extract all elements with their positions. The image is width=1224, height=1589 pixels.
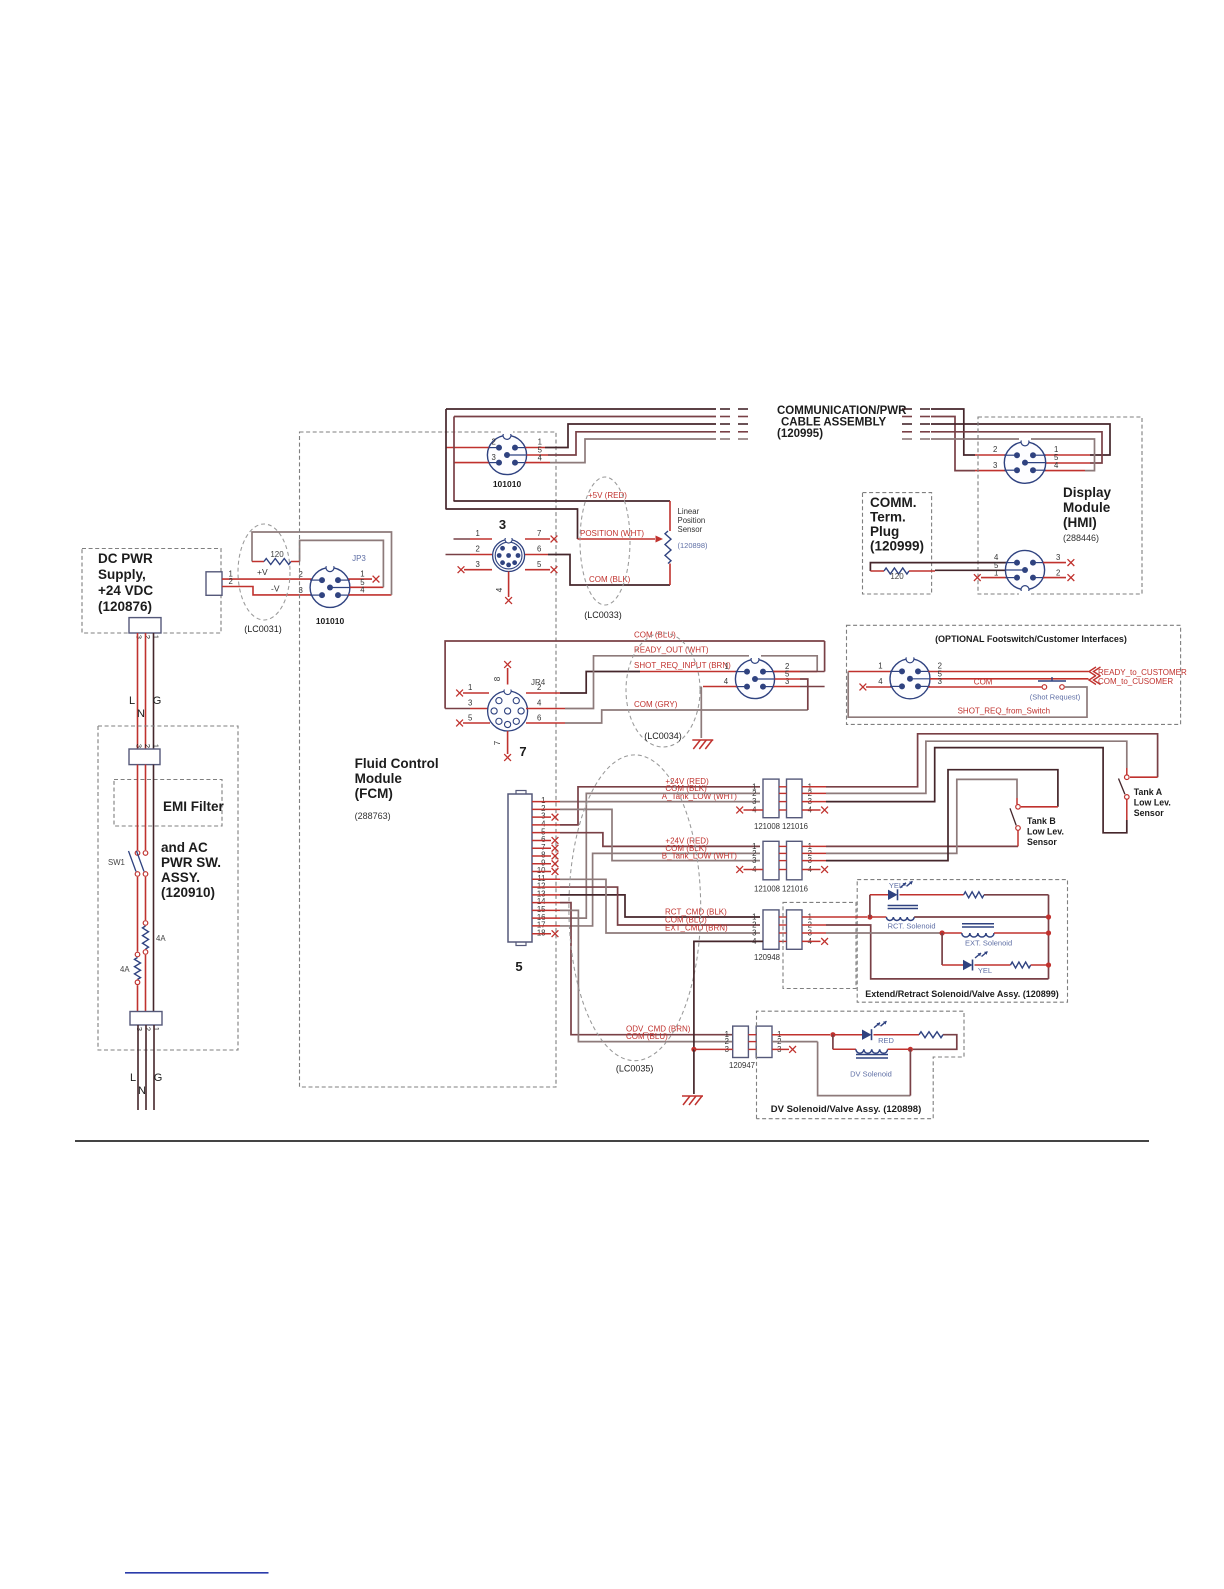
FCM connector pin number labels 1-18 <box>537 796 546 937</box>
connector JP3 101010 5-pin <box>310 554 366 626</box>
wire L from fuse to output block <box>137 985 139 1011</box>
svg-text:DV Solenoid/Valve Assy. (12089: DV Solenoid/Valve Assy. (120898) <box>771 1104 922 1115</box>
JR4 pin3 wire to COM BLU line <box>445 631 824 709</box>
wire tank B +24V to sensor switch bottom <box>802 831 1018 847</box>
svg-text:3: 3 <box>752 856 756 865</box>
connector3 pin7 stub with X <box>525 529 557 542</box>
wire L from EMI filter to DC supply <box>129 633 138 749</box>
fuse 4A on L wire <box>120 952 141 984</box>
wire cable row1 to HMI connector pin2 <box>931 409 1006 455</box>
wire tank A A_Tank_LOW return from sensor bottom <box>802 748 1127 833</box>
DV left pin labels <box>725 1030 729 1054</box>
wire 101010 pin1 to cable row3 <box>525 424 716 448</box>
LED YEL extend indicator branch <box>942 933 1046 975</box>
svg-text:SW1: SW1 <box>108 858 125 867</box>
svg-text:(HMI): (HMI) <box>1063 515 1097 530</box>
wire 101010 pin4 to cable row5 <box>525 439 716 463</box>
EMI filter AC input terminal block <box>130 1012 162 1032</box>
wire FCM pin13 RCT_CMD BLK <box>532 895 760 917</box>
ground net vertical at LC0034 <box>700 687 702 739</box>
footswitch connector pin1 wire SHOT_REQ from switch <box>848 662 1087 718</box>
svg-text:+V: +V <box>257 567 268 577</box>
svg-text:Plug: Plug <box>870 524 899 539</box>
svg-text:+5V (RED): +5V (RED) <box>588 491 627 500</box>
svg-text:Linear: Linear <box>678 507 700 516</box>
wire FCM pin17 COM BLK tank B <box>532 844 760 926</box>
svg-text:3: 3 <box>1056 553 1060 562</box>
connector HMI top 5-pin <box>1004 435 1045 483</box>
svg-text:L: L <box>129 695 135 707</box>
tank A 121016 pin4 stub with X <box>802 807 828 814</box>
AC line input wire N <box>138 1025 146 1110</box>
wire FCM pin1 A_Tank_LOW WHT <box>532 792 760 802</box>
connector3 pin6 wire COM BLK to sensor <box>525 545 670 586</box>
svg-text:N: N <box>138 1085 146 1097</box>
linear position sensor potentiometer (120898) <box>665 507 708 564</box>
LC0034 connector pin2 wire to COM BLU <box>773 641 824 672</box>
JR4 pin2 wire SHOT_REQ_INPUT BRN <box>526 661 737 693</box>
svg-text:POSITION (WHT): POSITION (WHT) <box>580 529 644 538</box>
JP3 pin1 stub with X <box>349 570 380 583</box>
wire G through EMI filter straight down <box>153 765 155 1012</box>
wire FCM pin4 +24V RED tank A <box>532 777 760 825</box>
svg-text:(LC0031): (LC0031) <box>244 624 282 634</box>
footswitch pin3 wire COM to shot request switch <box>929 677 1042 687</box>
tank A low level sensor switch <box>1119 775 1171 818</box>
svg-text:COM (BLU): COM (BLU) <box>634 631 676 640</box>
svg-text:COM (BLK): COM (BLK) <box>589 575 631 584</box>
wire N from SW1 to fuse <box>145 877 147 920</box>
POSITION WHT wiper line with arrow <box>578 529 664 543</box>
svg-text:5: 5 <box>785 670 790 679</box>
+5V wire corner into sensor top <box>669 501 671 531</box>
svg-text:YEL: YEL <box>889 881 903 890</box>
connector 3 label <box>499 517 506 532</box>
wire N through EMI filter <box>145 765 147 850</box>
svg-text:121016: 121016 <box>782 822 808 831</box>
comm terminator wire to HMI pin5 <box>935 561 1005 570</box>
svg-text:3: 3 <box>499 517 506 532</box>
svg-text:2: 2 <box>476 545 480 554</box>
svg-text:Module: Module <box>1063 500 1111 515</box>
svg-text:4: 4 <box>495 587 504 592</box>
svg-text:4: 4 <box>360 586 365 595</box>
tank A right pin labels <box>808 782 813 814</box>
svg-text:(120995): (120995) <box>777 428 823 440</box>
connector 121008 tank B <box>754 841 780 893</box>
wire vertical A to connector3 pin2 <box>446 545 493 555</box>
svg-text:L: L <box>130 1072 136 1084</box>
LED YEL retract indicator <box>870 881 913 900</box>
svg-text:5: 5 <box>468 714 473 723</box>
tank B left pin labels <box>752 842 757 874</box>
svg-text:G: G <box>153 695 162 707</box>
JR4 pin5 stub with X <box>456 714 490 727</box>
COMM Term Plug box (120999) <box>863 493 932 594</box>
HMI lower connector pin1 stub with X <box>974 569 1007 582</box>
wire L through EMI filter <box>137 765 139 850</box>
cable ellipse LC0035 <box>569 755 701 1074</box>
svg-text:COM_to_CUSOMER: COM_to_CUSOMER <box>1098 677 1173 686</box>
connector 121016 tank B <box>782 841 808 893</box>
svg-text:4A: 4A <box>156 934 166 943</box>
connector 120948 right <box>787 910 803 949</box>
svg-text:COM: COM <box>974 678 993 687</box>
RCT solenoid coil <box>872 906 1046 931</box>
svg-text:SHOT_REQ_from_Switch: SHOT_REQ_from_Switch <box>958 707 1050 716</box>
cable break dashes right side <box>902 409 930 439</box>
tank B 121008 pin4 stub with X <box>736 866 763 873</box>
svg-text:RCT. Solenoid: RCT. Solenoid <box>888 922 936 931</box>
junction EXT node left <box>940 930 945 935</box>
svg-text:Low Lev.: Low Lev. <box>1134 797 1171 807</box>
connector 120948 left <box>754 910 780 962</box>
tank A connector pair pin links <box>779 787 787 810</box>
EMI filter block <box>114 780 225 827</box>
svg-text:Sensor: Sensor <box>678 525 703 534</box>
footer link underline <box>125 1572 269 1574</box>
footswitch connector 5-pin <box>890 652 930 699</box>
svg-text:DV Solenoid: DV Solenoid <box>850 1070 892 1079</box>
wire 120948 pin2 COM to bottom rail <box>802 925 1049 979</box>
svg-text:101010: 101010 <box>493 479 522 489</box>
JP3 pin5 wire to 120ohm terminator <box>350 578 383 587</box>
position line from vertical A <box>446 509 578 539</box>
svg-text:3: 3 <box>492 453 496 462</box>
svg-text:EMI Filter: EMI Filter <box>163 799 225 814</box>
svg-text:CABLE ASSEMBLY: CABLE ASSEMBLY <box>781 417 887 429</box>
terminator inner loop wire pin5 to resistor <box>300 540 384 587</box>
svg-text:7: 7 <box>537 529 541 538</box>
wire 120947 pin1 ODV to LED node <box>772 1034 830 1036</box>
switch SW1 double pole <box>108 851 148 877</box>
svg-text:JP3: JP3 <box>352 554 366 563</box>
svg-text:+24 VDC: +24 VDC <box>98 583 153 598</box>
wire FCM pin2 B_Tank_LOW WHT <box>532 809 760 860</box>
wire 120948 pin4 to DV common and ground <box>694 941 763 1049</box>
svg-text:and AC: and AC <box>161 840 208 855</box>
svg-text:(LC0035): (LC0035) <box>616 1064 654 1074</box>
wire L from SW1 to fuse <box>137 877 139 952</box>
wire cable row4 to HMI connector pin5 <box>931 432 1102 463</box>
svg-text:N: N <box>137 708 145 720</box>
EXT solenoid coil <box>942 924 1046 948</box>
svg-text:SHOT_REQ_INPUT (BRN): SHOT_REQ_INPUT (BRN) <box>634 661 731 670</box>
+5V RED line from vertical B to sensor <box>454 491 671 501</box>
svg-text:(120876): (120876) <box>98 599 152 614</box>
svg-text:G: G <box>154 1072 163 1084</box>
svg-text:4: 4 <box>537 699 542 708</box>
EMI filter input terminal block <box>129 744 161 765</box>
footswitch connector pin4 stub with X <box>860 677 892 690</box>
FCM 18-pin connector 5 body <box>508 791 532 975</box>
cable break dashes left side <box>720 409 748 439</box>
LC0034 connector pin3 wire <box>773 677 824 687</box>
connector 3 8-pin <box>493 533 525 572</box>
svg-text:120947: 120947 <box>729 1061 755 1070</box>
120947 pin3 stub with X right side <box>772 1046 796 1053</box>
svg-text:(LC0033): (LC0033) <box>584 610 622 620</box>
svg-text:121008: 121008 <box>754 885 780 894</box>
wire N from EMI filter to DC supply <box>137 633 145 749</box>
fuse 4A on N wire <box>143 921 167 955</box>
connector 121008 tank A <box>754 779 780 831</box>
svg-text:6: 6 <box>537 545 541 554</box>
svg-text:4A: 4A <box>120 965 130 974</box>
footer horizontal rule <box>75 1140 1149 1142</box>
connector3 pin3 stub with X <box>458 560 492 573</box>
svg-text:1: 1 <box>878 662 882 671</box>
junction DV common <box>691 1047 696 1052</box>
LED RED divert indicator <box>833 1021 895 1045</box>
svg-text:EXT. Solenoid: EXT. Solenoid <box>965 939 1012 948</box>
svg-text:4: 4 <box>1054 461 1059 470</box>
svg-text:(120999): (120999) <box>870 539 924 554</box>
wire 101010 pin5 to cable row4 <box>527 432 716 455</box>
junction DV LED node <box>830 1032 835 1037</box>
LC0034 cable connector 5-pin <box>735 652 774 698</box>
JR4 connector 8-pin open pins <box>488 685 528 732</box>
svg-text:Fluid Control: Fluid Control <box>355 756 439 771</box>
connector 120947 right <box>756 1026 772 1057</box>
JR4 pin7 bottom stub with X <box>493 731 511 761</box>
junction RCT node right <box>1046 914 1051 919</box>
terminator outer loop wire pin4 to resistor <box>252 532 392 595</box>
cable ellipse LC0034 <box>626 633 700 747</box>
svg-text:Supply,: Supply, <box>98 567 146 582</box>
wire tank B COM to sensor switch top <box>802 779 1017 853</box>
svg-text:COM (GRY): COM (GRY) <box>634 700 678 709</box>
svg-text:120: 120 <box>270 550 284 559</box>
extend retract pin4 stub with X right side <box>802 938 828 945</box>
footswitch pin2 wire READY_to_CUSTOMER <box>929 662 1187 678</box>
svg-text:Tank A: Tank A <box>1134 787 1163 797</box>
svg-text:3: 3 <box>135 635 144 639</box>
svg-text:2: 2 <box>143 744 152 748</box>
svg-text:5: 5 <box>537 560 542 569</box>
svg-text:YEL: YEL <box>978 966 992 975</box>
wire G ground from EMI filter to DC supply <box>153 633 162 749</box>
svg-text:-V: -V <box>271 584 280 594</box>
JR4 pin8 top stub with X <box>493 661 511 691</box>
svg-text:4: 4 <box>724 677 729 686</box>
svg-text:Extend/Retract Solenoid/Valve: Extend/Retract Solenoid/Valve Assy. (120… <box>865 989 1059 999</box>
connector 120947 left <box>729 1026 755 1070</box>
wire cable row5 to HMI connector pin4 <box>931 439 1095 471</box>
svg-text:120: 120 <box>890 572 904 581</box>
wire -V from DC supply pin2 to JP3 pin3 <box>222 577 312 595</box>
svg-text:7: 7 <box>519 744 526 759</box>
resistor retract LED branch <box>900 892 1049 898</box>
wire FCM pin16 COM BLK tank A <box>532 784 760 918</box>
svg-text:8: 8 <box>493 676 502 681</box>
JP3 pin4 wire to terminator outer loop <box>349 586 392 595</box>
svg-text:(FCM): (FCM) <box>355 786 393 801</box>
svg-text:101010: 101010 <box>316 616 345 626</box>
DV solenoid valve assembly box (120898) <box>757 1011 965 1118</box>
junction DV coil right <box>908 1047 913 1052</box>
svg-text:3: 3 <box>135 744 144 748</box>
tank A left pin labels <box>752 782 757 814</box>
svg-text:3: 3 <box>468 699 472 708</box>
svg-text:7: 7 <box>493 740 502 745</box>
svg-text:(120898): (120898) <box>678 541 709 550</box>
wire FCM pin11 EXT_CMD BRN <box>532 879 760 933</box>
junction EXT node right <box>1046 930 1051 935</box>
wire 101010 pin2 net to cable row1 and position line <box>446 409 717 509</box>
shot request pushbutton switch <box>1030 677 1081 702</box>
svg-text:Sensor: Sensor <box>1027 837 1057 847</box>
junction RCT node left <box>867 914 872 919</box>
tank B low level sensor switch <box>1010 805 1064 847</box>
extend retract right pin labels <box>808 913 813 946</box>
svg-text:Tank B: Tank B <box>1027 816 1056 826</box>
wire tank B B_Tank_LOW to sensor switch <box>802 770 1058 861</box>
tank B 121016 pin4 stub with X <box>802 866 828 873</box>
junction extend LED branch right <box>1046 962 1051 967</box>
svg-text:3: 3 <box>938 677 942 686</box>
svg-text:4: 4 <box>878 677 883 686</box>
svg-text:2: 2 <box>993 445 997 454</box>
svg-text:EXT_CMD (BRN): EXT_CMD (BRN) <box>665 924 728 933</box>
AC line input wire G <box>154 1025 163 1110</box>
DV connector pair pin links <box>748 1035 756 1050</box>
HMI lower pin2 stub with X <box>1043 569 1074 582</box>
wire FCM pin14 ODV_CMD BRN <box>532 903 733 1035</box>
svg-text:6: 6 <box>537 714 541 723</box>
DC supply output terminal block <box>206 572 222 596</box>
svg-text:Module: Module <box>355 771 403 786</box>
JR4 connector label <box>519 678 545 759</box>
COMMUNICATION/PWR CABLE ASSEMBLY label (120995) <box>777 405 907 440</box>
wire FCM pin5 +24V RED tank B <box>532 833 760 847</box>
JR4 pin6 wire COM GRY <box>526 700 808 723</box>
svg-text:B_Tank_LOW (WHT): B_Tank_LOW (WHT) <box>662 852 737 861</box>
Fluid Control Module FCM box (288763) <box>300 432 557 1087</box>
wire junction down to ground <box>693 1049 695 1094</box>
wire cable row3 to HMI connector pin1 <box>931 424 1110 455</box>
svg-text:READY_OUT (WHT): READY_OUT (WHT) <box>634 646 709 655</box>
extend retract left pin labels <box>752 913 757 946</box>
svg-text:1: 1 <box>476 529 480 538</box>
AC line input wire L <box>130 1025 138 1110</box>
wire FCM pin15 COM BLU to DV valve <box>532 910 733 1041</box>
resistor DV LED branch <box>874 1032 957 1050</box>
DV right pin labels <box>777 1030 781 1054</box>
svg-text:(120910): (120910) <box>161 885 215 900</box>
svg-text:Position: Position <box>678 516 706 525</box>
LC0034 connector pin5 wire to COM GRY <box>775 670 808 711</box>
svg-text:RED: RED <box>878 1036 894 1045</box>
tank A 121008 pin4 stub with X <box>736 807 763 814</box>
wire 120948 pin1 RCT to junction <box>802 916 867 918</box>
ground symbol at LC0034 <box>692 740 713 749</box>
svg-text:2: 2 <box>537 683 541 692</box>
DV solenoid coil <box>833 1035 908 1079</box>
svg-text:Display: Display <box>1063 485 1112 500</box>
connector3 pin4 bottom stub with X <box>495 572 512 604</box>
right rail of extend retract circuit <box>1048 895 1050 979</box>
cable ellipse LC0031 <box>238 524 290 634</box>
svg-text:2: 2 <box>1056 569 1060 578</box>
svg-text:(288446): (288446) <box>1063 533 1099 543</box>
OPTIONAL Footswitch Customer Interfaces box <box>847 625 1181 724</box>
svg-text:2: 2 <box>144 1027 153 1031</box>
tank B right pin labels <box>808 842 813 874</box>
wire 120947 pin2 COM return <box>772 1042 910 1096</box>
svg-text:READY_to_CUSTOMER: READY_to_CUSTOMER <box>1098 668 1187 677</box>
wire cable row2 to HMI connector pin3 <box>931 417 1006 471</box>
svg-text:5: 5 <box>515 959 522 974</box>
svg-text:121008: 121008 <box>754 822 780 831</box>
svg-text:1: 1 <box>994 569 998 578</box>
resistor 120 ohm CAN terminator at JP3 <box>252 550 300 565</box>
svg-text:(OPTIONAL Footswitch/Customer: (OPTIONAL Footswitch/Customer Interfaces… <box>935 634 1127 644</box>
svg-text:(Shot Request): (Shot Request) <box>1030 693 1081 702</box>
cable ellipse LC0033 <box>580 477 630 620</box>
wire FCM pin12 COM BLU <box>532 887 760 925</box>
svg-text:PWR SW.: PWR SW. <box>161 855 221 870</box>
DC supply AC input terminal block <box>129 618 161 639</box>
FCM unused pin stubs with X marks pins 3 6 7 8 9 10 18 <box>532 814 558 937</box>
svg-text:COMMUNICATION/PWR: COMMUNICATION/PWR <box>777 405 907 417</box>
svg-text:Low Lev.: Low Lev. <box>1027 826 1064 836</box>
svg-text:Sensor: Sensor <box>1134 808 1164 818</box>
JR4 pin1 stub with X <box>456 683 489 696</box>
ground symbol at DV common <box>682 1096 703 1105</box>
svg-text:2: 2 <box>229 577 233 586</box>
svg-text:DC PWR: DC PWR <box>98 551 153 566</box>
footswitch pin5 wire COM_to_CUSOMER <box>930 669 1173 686</box>
EMI filter and AC power switch assembly box (120910) <box>98 726 238 1050</box>
wire junction to 120947 pin3 <box>694 1048 733 1050</box>
wire 120948 pin3 EXT to coil <box>802 932 940 934</box>
DC power supply module box (120876) <box>82 549 221 634</box>
wire N from fuse to output block <box>145 955 147 1012</box>
extend retract solenoid valve assembly box (120899) <box>857 880 1067 1003</box>
svg-text:2: 2 <box>492 438 496 447</box>
svg-text:120948: 120948 <box>754 953 780 962</box>
small dashed box around 120948 right connector <box>783 902 856 988</box>
wire tank A COM to sensor switch top <box>802 741 1127 793</box>
tank B connector pair pin links <box>779 846 787 869</box>
wire vertical B to connector3 pin1 <box>454 529 493 539</box>
JR4 pin4 wire READY_OUT WHT <box>526 646 817 709</box>
svg-text:COM (BLU): COM (BLU) <box>626 1032 668 1041</box>
svg-text:COM (BLK): COM (BLK) <box>665 784 707 793</box>
Display Module HMI box (288446) <box>978 417 1142 594</box>
svg-text:3: 3 <box>476 560 480 569</box>
wire +V from DC supply pin1 to JP3 pin2 <box>222 567 312 579</box>
comm terminator resistor 120 ohm <box>870 568 935 581</box>
svg-text:ASSY.: ASSY. <box>161 870 200 885</box>
wire RCT node up to LED branch <box>869 895 871 917</box>
connector 101010 top FCM comm connector <box>487 428 526 489</box>
connector 121016 tank A <box>782 779 808 831</box>
connector3 pin5 stub with X <box>525 560 557 573</box>
HMI lower pin3 stub with X <box>1043 553 1074 566</box>
comm terminator plug wire to HMI pin4 <box>870 553 1007 571</box>
svg-text:1: 1 <box>468 683 472 692</box>
wire tank A +24V to sensor switch <box>802 734 1158 787</box>
svg-text:COMM.: COMM. <box>870 495 917 510</box>
svg-text:(288763): (288763) <box>355 811 391 821</box>
wire 101010 pin3 net to cable row2 and +5V line <box>454 417 717 502</box>
svg-text:121016: 121016 <box>782 885 808 894</box>
svg-text:18: 18 <box>537 928 546 937</box>
svg-text:(LC0034): (LC0034) <box>644 731 682 741</box>
LC0034 connector pin4 wire to ground <box>703 677 737 687</box>
